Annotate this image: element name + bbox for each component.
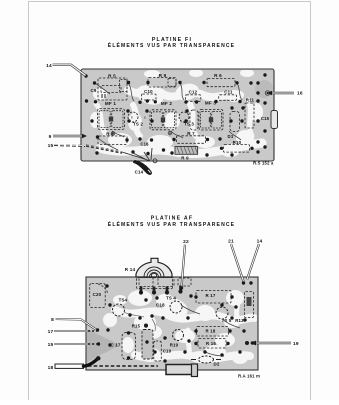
svg-text:TS4: TS4: [119, 298, 128, 303]
svg-text:R 6: R 6: [214, 73, 222, 78]
svg-text:C18: C18: [156, 303, 165, 308]
svg-text:21: 21: [228, 239, 234, 245]
svg-text:C12: C12: [189, 89, 198, 94]
svg-text:17: 17: [48, 329, 54, 335]
svg-text:C 17: C 17: [110, 343, 120, 348]
svg-text:19: 19: [293, 341, 299, 347]
svg-text:C16: C16: [140, 142, 149, 147]
svg-text:C20: C20: [93, 292, 102, 297]
svg-text:14: 14: [257, 239, 263, 245]
svg-text:MF 2: MF 2: [161, 101, 173, 106]
svg-text:R19: R19: [170, 343, 179, 348]
svg-text:PLATINE AF: PLATINE AF: [151, 216, 193, 222]
svg-text:R11: R11: [246, 98, 255, 103]
svg-text:R 17: R 17: [205, 293, 215, 298]
svg-text:R.A 161 m: R.A 161 m: [238, 374, 260, 379]
svg-text:C14: C14: [135, 169, 144, 174]
svg-text:R 14: R 14: [125, 267, 136, 272]
svg-text:16: 16: [297, 91, 303, 97]
svg-text:b: b: [131, 116, 133, 120]
svg-text:D2: D2: [213, 362, 219, 367]
svg-text:14: 14: [46, 63, 52, 69]
svg-text:C9: C9: [90, 88, 96, 93]
svg-text:C19: C19: [163, 349, 172, 354]
svg-text:R 18: R 18: [206, 328, 216, 333]
svg-text:e: e: [144, 116, 146, 120]
svg-text:C10: C10: [144, 89, 153, 94]
svg-text:TS 4: TS 4: [166, 295, 176, 300]
svg-text:18: 18: [48, 365, 54, 371]
svg-text:9: 9: [49, 134, 52, 140]
svg-text:R 9: R 9: [181, 156, 189, 161]
svg-text:22: 22: [183, 239, 189, 245]
svg-text:R 16: R 16: [206, 341, 216, 346]
svg-text:C11: C11: [224, 89, 233, 94]
svg-text:R 7: R 7: [187, 131, 195, 136]
svg-text:R15: R15: [132, 324, 141, 329]
svg-text:ÉLÉMENTS VUS PAR TRANSPAREN: ÉLÉMENTS VUS PAR TRANSPARENCE: [108, 220, 235, 228]
svg-text:R13: R13: [235, 318, 244, 323]
svg-text:15: 15: [48, 143, 54, 149]
svg-text:MF 1: MF 1: [105, 101, 117, 106]
svg-text:C15: C15: [261, 116, 270, 121]
svg-text:15: 15: [48, 342, 54, 348]
svg-text:TS 2: TS 2: [133, 122, 143, 127]
svg-text:8: 8: [51, 317, 54, 323]
svg-text:R.S 152 a: R.S 152 a: [253, 160, 274, 165]
svg-text:ÉLÉMENTS VUS PAR TRANSPAREN: ÉLÉMENTS VUS PAR TRANSPARENCE: [108, 41, 235, 49]
